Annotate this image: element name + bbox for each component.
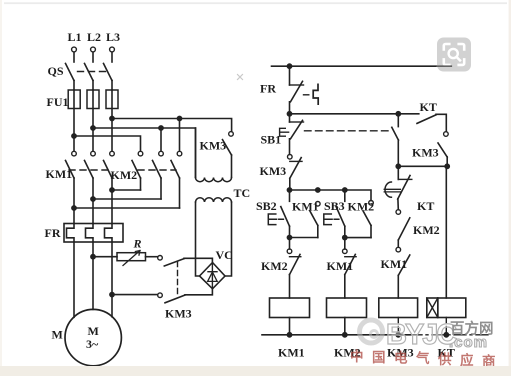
wire KM2 NO to KM1 NO (397, 240, 399, 247)
svg-text:FU1: FU1 (47, 95, 69, 109)
contact KM3 hold blade (438, 143, 447, 157)
coil KM1 (270, 298, 310, 318)
svg-text:KT: KT (417, 199, 434, 213)
node junction KM1 coil bottom rail (287, 333, 291, 337)
svg-text:KM1: KM1 (327, 259, 354, 273)
contact KM1 interlock NC terminal (343, 249, 348, 254)
contact KM3 brake upper blade (164, 259, 184, 266)
svg-text:KM2: KM2 (261, 259, 288, 273)
contact KM3 aux NC bar (290, 160, 302, 162)
contact KM3 brake lower terminal (158, 293, 163, 298)
wire crossover row KM1ph2 to KM2ph2 (93, 198, 161, 200)
svg-text:KM3: KM3 (200, 139, 227, 153)
contact KM3 brake linkage dashes (177, 262, 179, 294)
wire KM3 upper to VC top (184, 258, 212, 262)
button SB1 NC stem (289, 114, 291, 122)
svg-text:SB2: SB2 (256, 199, 277, 213)
contact KT delay symbol lines (384, 189, 400, 192)
page edge tint right (509, 0, 511, 376)
rectifier VC bridge diamond (200, 263, 226, 289)
contact KM1 NO rung3 blade (398, 255, 410, 275)
button SB1 NO stem (397, 114, 399, 127)
svg-text:应: 应 (460, 352, 474, 368)
contact KT delayed NC bar (398, 178, 412, 180)
node junction phase2 to row2 (91, 126, 95, 130)
wire to KM3 coil (397, 275, 399, 298)
contact KM2 NO rung3 terminal (396, 210, 401, 215)
svg-text:KM2: KM2 (348, 200, 375, 214)
wire KM3 hold to bus (446, 157, 448, 166)
wire QS to FU1 phase2 (92, 81, 94, 91)
contactor KM2 pole3 blade (171, 161, 180, 179)
node L1 terminal (72, 47, 77, 52)
coil KT X box (427, 298, 438, 318)
node junction KT coil bottom rail (444, 333, 448, 337)
wire FR to rail B (289, 102, 291, 114)
wire phase2 through fuse down to KM1 (92, 90, 94, 151)
node junction phase3 to row1 (110, 116, 114, 120)
svg-text:L3: L3 (106, 30, 120, 44)
wire phase1 through fuse down to KM1 (73, 90, 75, 151)
contactor KM2 pole1 blade (132, 161, 141, 179)
coil KM3 (379, 298, 418, 318)
node junction bus left (396, 164, 400, 168)
wire KM1 pole3 down to FR (111, 178, 113, 224)
contact KM3 brake upper terminal (158, 255, 163, 260)
svg-text:KM2: KM2 (111, 168, 138, 182)
svg-text:KM1: KM1 (381, 257, 408, 271)
svg-text:KM3: KM3 (260, 164, 287, 178)
node junction crossover at phase2 (91, 197, 95, 201)
wire QS to FU1 phase3 (111, 81, 113, 91)
contact KM3 primary terminal (229, 132, 234, 137)
contactor KM2 pole2 terminal (159, 151, 164, 156)
thermal relay FR box (64, 224, 123, 243)
node junction KM2 coil bottom rail (343, 333, 347, 337)
contact KT delayed NC stem (397, 166, 399, 179)
wire KM2 pole1 drop to crossover (140, 178, 142, 190)
node L3 terminal (110, 47, 115, 52)
contact KM2 interlock NC blade (290, 254, 301, 274)
node junction KM3 coil bottom rail (396, 333, 400, 337)
contact KT accel blade (417, 115, 436, 124)
svg-text:R: R (133, 237, 142, 251)
rectifier VC diode bar (208, 271, 217, 273)
wire FR to motor phase3 (111, 242, 113, 317)
contact KT delayed NC blade (398, 176, 410, 200)
svg-text:M: M (88, 324, 99, 338)
svg-text:电: 电 (394, 350, 408, 366)
button SB2 blade (281, 207, 290, 227)
wire KT contact corner (436, 114, 446, 131)
svg-text:气: 气 (415, 350, 430, 366)
contact KM2 interlock NC terminal (287, 249, 292, 254)
contact KM2 NO rung3 blade (398, 218, 410, 240)
svg-text:FR: FR (260, 82, 276, 96)
wire KM2 pole3 drop to crossover (179, 178, 181, 208)
wire L3 stub (111, 52, 113, 62)
node junction rung2 join (343, 236, 347, 240)
node junction bus right (445, 164, 449, 168)
wire L1 stub (73, 52, 75, 62)
switch QS pole 1 blade (66, 64, 75, 81)
svg-text:TC: TC (234, 186, 251, 200)
wire crossover row KM1ph1 to KM2ph3 (74, 207, 180, 209)
transformer TC secondary winding (196, 198, 232, 202)
coil KT main box (438, 298, 466, 318)
fuse FU1 element 3 (106, 90, 118, 109)
node junction rail C SB3 tap (343, 188, 347, 192)
contact KM3 hold terminal (444, 132, 449, 137)
svg-text:KM3: KM3 (165, 307, 192, 321)
contactor KM1 pole2 terminal (91, 151, 96, 156)
wire KT delayed to KM2 NO (397, 199, 399, 210)
wire KM2 pole3 drop (179, 119, 181, 152)
wire row1 phase3 to KM2 pole3 and KM3 (112, 119, 232, 132)
wire KM2 aux drop (370, 225, 372, 237)
wire phase3 through fuse down to KM1 (111, 90, 113, 151)
magnifier icon overlay (437, 38, 471, 72)
wire rung1 parallel join (290, 237, 318, 239)
svg-text:FR: FR (45, 226, 61, 240)
wire to KM1 coil (289, 275, 291, 298)
svg-text:KM3: KM3 (412, 146, 439, 160)
control bottom rail dash-dot part (410, 334, 490, 336)
motor M circle (65, 309, 121, 365)
contactor KM1 pole1 terminal (72, 151, 77, 156)
svg-text:3~: 3~ (86, 337, 99, 351)
contact KM2 aux NO blade (363, 211, 371, 226)
wire to KM2 coil (344, 275, 346, 298)
wire KM3 aux to rail C (289, 178, 291, 190)
svg-text:VC: VC (216, 248, 233, 262)
resistor R body (117, 253, 146, 261)
contact KM1 NO rung3 terminal (396, 247, 401, 252)
contact FR NC blade (291, 81, 303, 102)
node junction crossover at phase3 (110, 188, 114, 192)
wire TC secondary left to VC left (196, 202, 200, 276)
thermal relay FR heater element 1 (67, 224, 75, 243)
contactor KM1 linkage dashes (69, 169, 108, 171)
resistor R adjust arrow (123, 251, 140, 266)
node junction brake tap phase3 (110, 293, 114, 297)
coil KM2 (327, 298, 367, 318)
wire KM1 aux drop (317, 225, 319, 237)
button SB2 actuator E (268, 214, 283, 225)
button SB1 NC blade (291, 120, 303, 138)
fuse FU1 element 1 (68, 90, 80, 109)
fuse FU1 element 2 (87, 90, 99, 109)
button SB3 actuator E (324, 214, 339, 225)
thermal relay FR heater element 3 (105, 224, 113, 243)
wire QS to FU1 phase1 (73, 81, 75, 91)
svg-text:L1: L1 (68, 30, 82, 44)
node junction rail C left (287, 188, 291, 192)
button SB1 NC bar (290, 121, 304, 123)
contactor KM2 pole1 terminal (138, 151, 143, 156)
node junction rail A to FR (287, 64, 291, 68)
wire KT rung vertical (445, 166, 447, 298)
wire rail A segment over icon (437, 65, 451, 67)
button SB3 stem (344, 190, 346, 201)
wire KM2 coil to bottom rail (344, 318, 346, 335)
svg-text:供: 供 (437, 351, 452, 367)
svg-text:KT: KT (420, 100, 437, 114)
contact KM1 interlock NC blade (345, 254, 356, 274)
node junction phase1 to row3 (72, 134, 76, 138)
page edge tint left (0, 0, 2, 376)
button SB1 linkage dashes to SB1 NO (305, 130, 391, 132)
contactor KM1 pole1 blade (66, 161, 75, 179)
contact KM1 aux NO terminal (316, 202, 321, 207)
contact KM2 aux NO terminal (369, 201, 374, 206)
wire KT coil to bottom rail dashed (445, 318, 447, 335)
wire row2 phase2 to KM2 pole2 and TC (93, 128, 196, 178)
control rail C (290, 190, 372, 201)
svg-text:KM1: KM1 (278, 346, 305, 360)
rectifier VC diode line (211, 264, 213, 289)
artifact small cross mark (238, 75, 243, 80)
svg-text:KM1: KM1 (46, 167, 73, 181)
contact KM3 brake lower blade (165, 295, 185, 303)
contact KM3 primary blade (223, 140, 232, 155)
contact KM1 interlock NC bar (345, 256, 356, 258)
contactor KM1 pole3 blade (104, 161, 113, 179)
svg-text:SB3: SB3 (324, 199, 345, 213)
wire SB1 NO to bus (397, 140, 399, 166)
wire KM2 pole2 drop to crossover (160, 178, 162, 199)
coil KT X cross (427, 298, 438, 318)
svg-text:KM2: KM2 (413, 223, 440, 237)
contact FR NC bar (290, 84, 304, 86)
svg-text:KM1: KM1 (292, 200, 319, 214)
wire parallel bus (398, 165, 447, 167)
thermal relay FR heater element 2 (86, 224, 94, 243)
wire crossover row KM1ph3 to KM2ph1 (112, 189, 141, 191)
button SB1 NO blade (392, 127, 399, 140)
wire KM3 blade to TC primary right (231, 155, 233, 178)
wire R to KM3 brake upper contact (146, 256, 158, 258)
thermal relay FR operator symbol (313, 84, 318, 104)
wire KM2 pole2 drop (160, 128, 162, 151)
wire KM3 lower to VC bottom (185, 289, 212, 295)
control bottom rail solid part (262, 334, 410, 336)
node junction row1 KM2 pole3 tap (177, 116, 181, 120)
control rail A top (272, 65, 452, 67)
wire KM1 pole2 down to FR (92, 178, 94, 224)
contactor KM1 pole3 terminal (110, 151, 115, 156)
button SB2 stem (289, 190, 291, 201)
node junction brake tap phase2 (91, 255, 95, 259)
wire TC secondary right to VC right (225, 202, 232, 276)
contact FR NC stem (289, 66, 291, 85)
contact KM3 aux NC terminal (288, 155, 293, 160)
svg-text:BYJC: BYJC (386, 319, 457, 351)
node junction rail C KM1 aux tap (316, 188, 320, 192)
node junction row2 KM2 pole2 tap (159, 126, 163, 130)
wire L2 stub (92, 52, 94, 62)
node junction crossover at phase1 (72, 206, 76, 210)
contact KM1 aux NO blade (310, 211, 318, 226)
switch QS linkage dashes (78, 71, 110, 73)
wire phase2 to resistor R (93, 256, 117, 258)
watermark logo ring (360, 320, 383, 343)
contactor KM2 linkage dashes (138, 169, 176, 171)
transformer TC primary winding (196, 178, 232, 182)
switch QS pole 3 blade (104, 64, 113, 81)
button SB1 actuator E (280, 128, 289, 136)
node junction rung1 join (287, 235, 291, 239)
contact KT delay symbol arc (385, 182, 391, 197)
contact KM3 aux NC blade (290, 158, 301, 179)
wire row3 phase1 to KM2 pole1 (74, 136, 141, 151)
wire KM1 coil to bottom rail (289, 318, 291, 335)
wire KM1 pole1 down to FR (73, 178, 75, 224)
node junction rail B SB1 NO tap (396, 112, 400, 116)
wire FR to motor phase2 (92, 242, 94, 309)
wire FR to motor phase1 (73, 242, 75, 317)
wire SB1 to KM3 aux NC (289, 139, 291, 155)
contactor KM1 pole2 blade (85, 161, 94, 179)
wire KM3 coil to bottom rail dashed (397, 318, 399, 335)
svg-text:SB1: SB1 (261, 133, 282, 147)
contact KM2 interlock NC bar (290, 256, 301, 258)
node junction rail B left (287, 112, 291, 116)
svg-text:M: M (52, 328, 63, 342)
wire SB3 down to rung2 (344, 226, 346, 249)
button SB3 blade (336, 207, 345, 227)
svg-text:.com: .com (449, 334, 488, 351)
node L2 terminal (91, 47, 96, 52)
control rail B (290, 113, 419, 115)
transformer TC primary left lead (195, 128, 197, 178)
rectifier VC diode triangle (208, 272, 218, 281)
switch QS pole 2 blade (85, 64, 94, 81)
contactor KM2 pole2 blade (153, 161, 162, 179)
thermal relay FR symbol dash (304, 94, 309, 96)
wire rung2 parallel join (345, 237, 371, 239)
svg-text:中: 中 (350, 348, 364, 364)
watermark red chinese text (350, 348, 496, 369)
svg-text:QS: QS (48, 64, 64, 78)
contactor KM2 pole3 terminal (177, 151, 182, 156)
svg-text:L2: L2 (87, 30, 101, 44)
svg-text:国: 国 (372, 350, 386, 365)
page edge band bottom (0, 366, 511, 376)
page edge tint top (4, 2, 507, 4)
wire SB2 down to rung1 (289, 226, 291, 249)
wire phase3 to KM3 brake lower contact (112, 294, 158, 296)
